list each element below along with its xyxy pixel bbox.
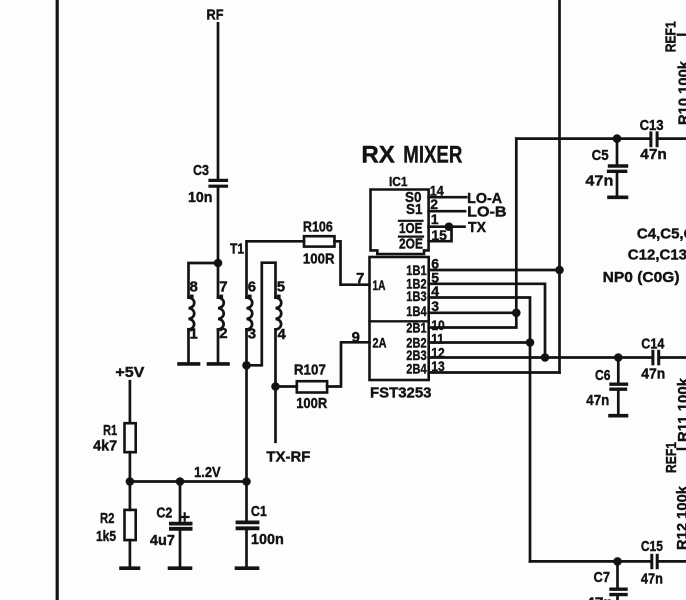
svg-text:C13: C13 (640, 117, 664, 134)
svg-text:100R: 100R (303, 251, 335, 268)
node RF (207, 7, 224, 24)
svg-text:R1: R1 (103, 422, 117, 439)
svg-text:100n: 100n (251, 531, 284, 548)
wire pin 13 (429, 371, 560, 374)
junction pin3 bus (512, 309, 521, 318)
capacitor C15 (641, 538, 686, 588)
svg-text:REF1: REF1 (663, 21, 680, 52)
ground (170, 566, 191, 570)
capacitor C7 (586, 561, 626, 600)
svg-text:C1: C1 (251, 503, 267, 520)
wire R2 to ground (129, 540, 132, 566)
capacitor C13 (640, 117, 686, 163)
svg-text:C4,C5,C8: C4,C5,C8 (637, 226, 686, 243)
svg-text:LO-B: LO-B (467, 203, 507, 220)
ground (209, 362, 229, 366)
svg-text:C3: C3 (193, 162, 209, 179)
svg-text:C6: C6 (595, 367, 611, 384)
svg-text:RF: RF (207, 7, 224, 24)
svg-text:47n: 47n (641, 570, 663, 587)
wire pin 5 (429, 284, 545, 358)
svg-text:47n: 47n (641, 366, 665, 383)
junction T1 top (214, 259, 223, 268)
junction R1/R2 (126, 477, 135, 486)
wire pin 12 row2 (429, 356, 652, 359)
capacitor C5 (585, 139, 626, 196)
svg-text:1A: 1A (373, 277, 386, 293)
node REF1 top (663, 21, 686, 52)
svg-text:REF1: REF1 (663, 442, 680, 473)
svg-text:FST3253: FST3253 (370, 384, 432, 401)
junction R107 (271, 382, 280, 391)
svg-text:T1: T1 (230, 240, 244, 257)
svg-text:S1: S1 (406, 201, 423, 218)
svg-text:5: 5 (277, 279, 285, 296)
svg-text:47n: 47n (586, 595, 613, 600)
wire pin 10 riser to row1 (429, 139, 517, 328)
resistor R2 (96, 510, 136, 545)
svg-text:1.2V: 1.2V (194, 464, 221, 481)
svg-text:R12 100k: R12 100k (674, 485, 686, 550)
svg-text:+5V: +5V (115, 364, 144, 381)
wire pin 1 to TX (429, 225, 465, 228)
svg-text:7: 7 (219, 279, 227, 296)
junction row2 C6 (614, 353, 623, 362)
wire winding 8 to ground (187, 330, 190, 363)
svg-text:4k7: 4k7 (93, 438, 117, 455)
svg-text:7: 7 (356, 270, 364, 287)
ground (609, 196, 627, 200)
wire rail to R2 (129, 482, 132, 510)
svg-text:RX: RX (361, 141, 395, 168)
svg-text:2: 2 (219, 325, 227, 342)
IC IC1 FST3253 (370, 174, 448, 401)
svg-text:1B3: 1B3 (406, 288, 426, 304)
resistor R106 (303, 218, 335, 267)
wire winding 4 bottom down to TX-RF (274, 330, 277, 442)
wire winding 7 to ground (217, 330, 220, 363)
wire rail to C2 (179, 482, 182, 522)
svg-text:R11 100k: R11 100k (675, 377, 686, 442)
capacitor C1 (238, 482, 284, 548)
svg-text:2OE: 2OE (399, 235, 423, 252)
capacitor C3 (188, 162, 227, 206)
junction pin4 pin11 (526, 338, 535, 347)
svg-text:C2: C2 (156, 505, 172, 522)
svg-text:C7: C7 (594, 569, 611, 586)
T1 winding 6-3 (247, 279, 257, 343)
wire R107 to IC pin 9 (327, 342, 369, 386)
wire +5V to R1 (129, 381, 132, 423)
svg-text:4: 4 (278, 326, 287, 343)
svg-text:C12,C13,C: C12,C13,C (628, 246, 686, 263)
wire LO bus vertical (558, 0, 561, 373)
wire winding 6 top to R106 (247, 241, 305, 297)
svg-text:10n: 10n (188, 189, 213, 206)
capacitor C2 polarized (150, 505, 191, 550)
svg-text:TX: TX (468, 219, 486, 236)
T1 winding 7-2 (218, 279, 228, 343)
resistor R1 (93, 422, 136, 455)
wire R106 to IC pin 7 (335, 241, 370, 284)
wire C1 to ground (245, 530, 248, 566)
svg-text:47n: 47n (585, 172, 613, 189)
wire junction to winding 8 (189, 263, 219, 298)
svg-text:MIXER: MIXER (403, 141, 462, 168)
svg-text:9: 9 (352, 329, 360, 346)
svg-text:R106: R106 (303, 218, 333, 235)
capacitor C6 (586, 358, 626, 414)
svg-text:TX-RF: TX-RF (266, 448, 310, 465)
wire pin 4 (429, 298, 530, 562)
svg-text:IC1: IC1 (389, 174, 408, 189)
wire winding 3 bottom down (245, 330, 248, 482)
svg-text:NP0 (C0G): NP0 (C0G) (603, 269, 680, 286)
svg-text:C5: C5 (592, 147, 609, 164)
wire row3 horizontal (530, 560, 650, 563)
wire pin 15 to TX (429, 227, 452, 242)
junction C1 (242, 477, 251, 486)
svg-text:C15: C15 (641, 538, 663, 555)
wire RF to C3 (217, 23, 220, 180)
svg-text:3: 3 (431, 298, 439, 314)
T1 winding 5-4 (276, 279, 287, 344)
svg-text:R10 100k: R10 100k (676, 60, 686, 125)
svg-text:C14: C14 (641, 336, 665, 353)
junction TX (445, 222, 454, 231)
wire C2 to ground (179, 531, 182, 567)
capacitor C14 (641, 336, 686, 383)
wire junction to winding 7 (217, 263, 220, 298)
wire pin 14 (429, 196, 467, 199)
svg-text:47n: 47n (586, 392, 609, 409)
ground (179, 362, 199, 366)
svg-text:2B4: 2B4 (406, 361, 426, 377)
junction T1 pin3 (242, 361, 251, 370)
svg-text:2A: 2A (373, 334, 387, 350)
wire C3 to T1 (217, 186, 220, 263)
note capacitor types (603, 226, 686, 286)
svg-text:1: 1 (190, 325, 198, 342)
junction pin6 bus (555, 266, 564, 275)
junction C2 (176, 477, 185, 486)
svg-text:1k5: 1k5 (96, 528, 116, 545)
svg-text:1B4: 1B4 (406, 303, 426, 319)
wire row1 horizontal (516, 137, 650, 140)
svg-text:R2: R2 (100, 510, 115, 527)
wire junction to R107 (276, 385, 297, 388)
svg-text:8: 8 (190, 279, 198, 296)
node REF1 middle (663, 442, 686, 473)
svg-text:100R: 100R (296, 395, 327, 412)
wire pin 3 (429, 311, 517, 314)
node 1.2V rail (130, 480, 247, 483)
svg-text:6: 6 (248, 279, 256, 296)
junction pin5 row2 (541, 353, 550, 362)
svg-text:47n: 47n (640, 146, 667, 163)
svg-text:2B1: 2B1 (406, 319, 426, 335)
ground (121, 566, 139, 570)
wire R1 to 1.2V rail (129, 452, 132, 481)
wire pin 6 (429, 269, 560, 272)
ground (610, 414, 627, 418)
wire pin 11 (429, 341, 530, 344)
junction row1 C5 (613, 134, 622, 143)
svg-text:3: 3 (248, 326, 256, 343)
junction row3 C7 (613, 557, 622, 566)
ground (237, 566, 258, 570)
svg-text:4u7: 4u7 (150, 532, 175, 549)
svg-text:1: 1 (431, 211, 439, 227)
wire pin3 to winding 5 top (247, 263, 276, 366)
resistor R107 (294, 362, 327, 412)
T1 winding 8-1 (189, 279, 198, 343)
svg-text:R107: R107 (294, 362, 326, 379)
wire pin 2 (429, 210, 465, 213)
